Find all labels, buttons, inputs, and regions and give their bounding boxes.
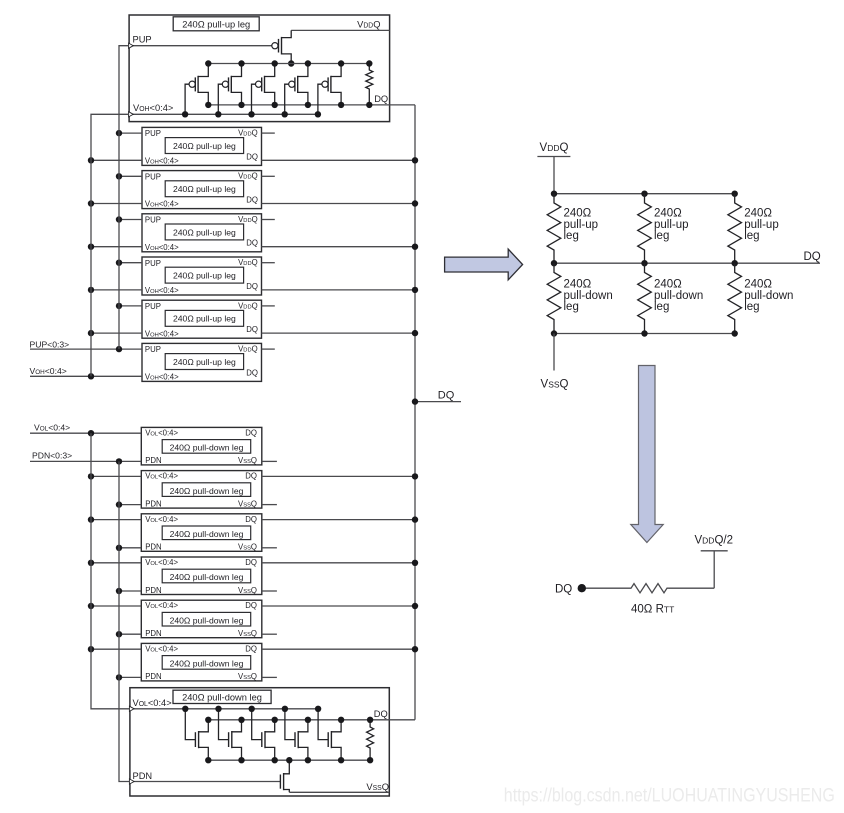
wire VOH input PU5 — [91, 332, 142, 334]
net label DQ (equivalent) — [804, 251, 821, 263]
node: VOL bus tap PD4 — [88, 560, 94, 566]
wire DQ to RTT — [584, 587, 628, 589]
wire VDDQ to top rail — [553, 157, 555, 194]
wire DQ PD4 to DQ rail — [262, 562, 415, 564]
svg-text:PDN: PDN — [145, 456, 161, 465]
pull-up leg block PU3 (box) — [142, 214, 262, 252]
node: bottom rail junction 3 — [732, 330, 738, 336]
net label PDN<0:3> — [32, 451, 72, 461]
resistor 240ohm pull-down leg 2 — [638, 263, 652, 333]
svg-text:DQ: DQ — [555, 584, 572, 596]
svg-text:240Ω pull-down leg: 240Ω pull-down leg — [170, 529, 244, 539]
svg-text:240Ω: 240Ω — [744, 279, 772, 291]
node: DQ junction PD6 — [412, 646, 418, 652]
node: M1 source on rail — [205, 60, 211, 66]
node: DQ junction PU1 — [412, 157, 418, 163]
wire VOL gate bus (bottom detail) — [129, 706, 318, 711]
svg-text:240Ω: 240Ω — [654, 208, 682, 220]
node: M5 drain on rail — [338, 102, 344, 108]
pull-down leg block PD5 (box) — [141, 600, 261, 638]
net label PUP<0:3> — [30, 339, 70, 349]
net label VSSQ (bottom detail) — [366, 782, 389, 792]
wire VSSQ stub PD4 — [262, 590, 277, 592]
pull-down leg block PD4 (box) — [141, 557, 261, 595]
transistor M5 (PMOS leg segment) — [318, 64, 341, 115]
svg-text:DQ: DQ — [245, 644, 257, 653]
node: N2 source on rail — [238, 757, 244, 763]
wire DQ rail (bottom detail) — [208, 719, 415, 721]
node: PUP bus tap PU5 — [116, 303, 122, 309]
node: M4 drain on rail — [305, 102, 311, 108]
node: VOH bus tap PU1 — [88, 157, 94, 163]
net label PDN (bottom detail) — [133, 771, 153, 781]
node: N3 drain on DQ rail — [272, 717, 278, 723]
wire PUP<0:3> input line — [30, 348, 142, 350]
svg-text:pull-down: pull-down — [744, 290, 793, 302]
wire VDDQ stub PU2 — [262, 175, 275, 177]
svg-text:VOH<0:4>: VOH<0:4> — [145, 157, 179, 166]
node: R_PD top — [367, 717, 373, 723]
svg-text:240Ω pull-up leg: 240Ω pull-up leg — [182, 20, 250, 30]
svg-text:VDDQ/2: VDDQ/2 — [695, 535, 734, 547]
wire DQ PU3 to DQ rail — [262, 246, 416, 248]
node: PDN bus tap PD2 — [116, 501, 122, 507]
wire PUP input PU4 — [119, 262, 142, 264]
svg-text:VOL<0:4>: VOL<0:4> — [145, 472, 178, 481]
transistor N1 (NMOS leg segment) — [185, 709, 208, 760]
node: M1 drain on rail — [205, 102, 211, 108]
node: N4 drain on DQ rail — [305, 717, 311, 723]
svg-text:240Ω pull-up leg: 240Ω pull-up leg — [173, 141, 236, 151]
node: bottom rail junction 1 — [551, 330, 557, 336]
svg-text:VOH<0:4>: VOH<0:4> — [30, 366, 67, 376]
node: N1 gate on VOL bus — [182, 706, 188, 712]
svg-text:PDN: PDN — [145, 586, 161, 595]
node: N4 gate on VOL bus — [282, 706, 288, 712]
value label pull-up leg 2 — [654, 208, 689, 243]
node: PDN bus start — [116, 458, 122, 464]
wire VDDQ stub PU6 — [262, 348, 275, 350]
value label pull-up leg 1 — [564, 208, 599, 243]
pull-up leg block PU5 (box) — [142, 300, 262, 338]
pull-down leg block PD1 (box) — [141, 427, 261, 465]
svg-text:PUP: PUP — [145, 129, 161, 138]
node: R_PD bottom — [367, 757, 373, 763]
svg-text:PDN<0:3>: PDN<0:3> — [32, 451, 72, 461]
wire bottom rail (equivalent) — [554, 333, 735, 335]
svg-text:DQ: DQ — [246, 325, 258, 334]
resistor 240ohm pull-up leg 2 — [638, 194, 652, 264]
svg-text:VDDQ: VDDQ — [540, 142, 569, 154]
value label pull-up leg 3 — [744, 208, 779, 243]
wire VSSQ rail (bottom detail) — [289, 791, 389, 793]
svg-text:240Ω pull-down leg: 240Ω pull-down leg — [170, 572, 244, 582]
node: N3 source on rail — [272, 757, 278, 763]
net label VDDQ (top detail) — [357, 20, 380, 30]
node: M1 gate on VOH bus — [182, 111, 188, 117]
node: R_PU bottom / DQ — [366, 102, 372, 108]
node: VOL bus tap PD5 — [88, 603, 94, 609]
svg-text:PDN: PDN — [145, 672, 161, 681]
svg-text:DQ: DQ — [246, 282, 258, 291]
transistor N2 (NMOS leg segment) — [219, 709, 242, 760]
value label pull-down leg 2 — [654, 279, 703, 314]
wire VSSQ stub PD3 — [262, 547, 277, 549]
net label PUP (top detail) — [133, 35, 152, 45]
transistor M4 (PMOS leg segment) — [285, 64, 308, 115]
node: R_PU top — [366, 60, 372, 66]
svg-text:PDN: PDN — [145, 543, 161, 552]
node: PUP bus end — [116, 346, 122, 352]
node: top rail junction 2 — [641, 191, 647, 197]
wire PUP input PU3 — [119, 219, 142, 221]
pull-up leg block PU4 (box) — [142, 257, 262, 295]
svg-text:DQ: DQ — [374, 94, 388, 104]
wire top rail (equivalent) — [554, 193, 735, 195]
wire DQ PD6 to DQ rail — [262, 648, 415, 650]
svg-text:PUP: PUP — [145, 259, 161, 268]
net label DQ (top detail) — [374, 94, 388, 104]
node: DQ junction PD2 — [412, 473, 418, 479]
svg-text:DQ: DQ — [374, 709, 388, 719]
svg-text:240Ω pull-up leg: 240Ω pull-up leg — [173, 357, 236, 367]
svg-text:pull-down: pull-down — [654, 290, 703, 302]
svg-text:PUP: PUP — [145, 302, 161, 311]
node: VOL bus tap PD3 — [88, 516, 94, 522]
node: N1 source on rail — [205, 757, 211, 763]
wire PDN input PD5 — [119, 633, 141, 635]
svg-text:240Ω pull-down leg: 240Ω pull-down leg — [170, 615, 244, 625]
wire VSSQ stub PD6 — [262, 676, 277, 678]
resistor 240ohm pull-down leg 3 — [728, 263, 742, 333]
node: M5 gate on VOH bus — [315, 111, 321, 117]
svg-text:DQ: DQ — [245, 428, 257, 437]
wire DQ PU2 to DQ rail — [262, 203, 416, 205]
svg-text:PDN: PDN — [145, 629, 161, 638]
pull-down leg block PD3 (box) — [141, 514, 261, 552]
net label DQ (main) — [438, 390, 455, 402]
wire PDN input PD4 — [119, 590, 141, 592]
pull-down leg block PD2 (box) — [141, 471, 261, 509]
svg-text:leg: leg — [744, 230, 759, 242]
svg-text:240Ω pull-down leg: 240Ω pull-down leg — [170, 659, 244, 669]
svg-text:DQ: DQ — [438, 390, 455, 402]
wire DQ PD3 to DQ rail — [262, 519, 415, 521]
svg-text:DQ: DQ — [246, 152, 258, 161]
node: DQ rail junction 2 — [641, 260, 647, 266]
svg-text:VOL<0:4>: VOL<0:4> — [145, 558, 178, 567]
node: DQ rail junction 1 — [551, 260, 557, 266]
node: N5 source on rail — [338, 757, 344, 763]
node: PDN bus tap PD3 — [116, 545, 122, 551]
node: N3 gate on VOL bus — [249, 706, 255, 712]
value label pull-down leg 1 — [564, 279, 613, 314]
label box 240ohm pull-up leg — [173, 17, 259, 31]
wire VDDQ stub PU4 — [262, 262, 275, 264]
node: N5 drain on DQ rail — [338, 717, 344, 723]
power symbol VDDQ — [537, 142, 570, 157]
node: DQ junction PD5 — [412, 603, 418, 609]
wire VOL input PD6 — [91, 648, 141, 650]
svg-text:240Ω pull-up leg: 240Ω pull-up leg — [173, 271, 236, 281]
svg-text:DQ: DQ — [245, 515, 257, 524]
resistor 240ohm pull-down leg 1 — [547, 263, 561, 333]
wire PDN bus (vertical) — [119, 461, 130, 781]
pull-up leg detail box (outline) — [129, 15, 390, 122]
net label DQ (RTT model) — [555, 584, 572, 596]
wire VOL input PD2 — [91, 475, 141, 477]
wire VOH input PU4 — [91, 289, 142, 291]
svg-text:VSSQ: VSSQ — [541, 378, 569, 390]
svg-text:PDN: PDN — [145, 499, 161, 508]
node: top rail junction 1 — [551, 191, 557, 197]
node: bottom rail junction 2 — [641, 330, 647, 336]
svg-text:VOL<0:4>: VOL<0:4> — [34, 422, 70, 432]
node: M5 source on rail — [338, 60, 344, 66]
transistor Q_PUP (PMOS) — [272, 30, 291, 63]
svg-text:pull-up: pull-up — [564, 219, 599, 231]
node: VOL bus tap PD2 — [88, 473, 94, 479]
wire VOL input PD5 — [91, 605, 141, 607]
svg-text:pull-down: pull-down — [564, 290, 613, 302]
wire PDN input PD3 — [119, 547, 141, 549]
wire VOH input PU3 — [91, 246, 142, 248]
node: M3 source on rail — [272, 60, 278, 66]
svg-text:240Ω: 240Ω — [564, 279, 592, 291]
wire VOH gate bus (top detail) — [129, 112, 318, 117]
node: Q_PUP drain on source rail — [288, 60, 294, 66]
power symbol VSSQ — [541, 378, 569, 390]
wire PDN input PD6 — [119, 676, 141, 678]
svg-text:PUP: PUP — [145, 216, 161, 225]
svg-text:https://blog.csdn.net/LUOHUATI: https://blog.csdn.net/LUOHUATINGYUSHENG — [504, 785, 835, 807]
svg-text:VOL<0:4>: VOL<0:4> — [133, 698, 172, 708]
node: VOH bus tap PU5 — [88, 330, 94, 336]
wire VDDQ stub PU3 — [262, 219, 275, 221]
pull-up leg block PU6 (box) — [142, 343, 262, 381]
node: VOL bus tap PD6 — [88, 646, 94, 652]
wire VOH bus (vertical) — [91, 114, 129, 376]
node: N4 source on rail — [305, 757, 311, 763]
node: PDN bus tap PD5 — [116, 631, 122, 637]
svg-text:PUP<0:3>: PUP<0:3> — [30, 339, 70, 349]
svg-text:leg: leg — [654, 230, 669, 242]
net label VOL<0:4> (bottom detail) — [133, 698, 172, 708]
wire PDN input (bottom detail) — [129, 779, 280, 784]
net label VOH<0:4> (input) — [30, 366, 67, 376]
svg-text:DQ: DQ — [245, 558, 257, 567]
svg-text:DQ: DQ — [245, 472, 257, 481]
resistor R_PU (240 ohm) — [366, 64, 373, 105]
wire PDN<0:3> input line — [30, 460, 141, 462]
wire source rail (top detail) — [208, 63, 369, 65]
arrow (equivalent circuit to RTT model) — [631, 366, 663, 543]
wire VSSQ stub PD5 — [262, 633, 277, 635]
node: DQ junction PU5 — [412, 330, 418, 336]
pull-up leg block PU1 (box) — [142, 127, 262, 165]
svg-text:240Ω pull-up leg: 240Ω pull-up leg — [173, 314, 236, 324]
transistor M2 (PMOS leg segment) — [218, 64, 241, 115]
node: DQ junction PU3 — [412, 244, 418, 250]
svg-text:240Ω: 240Ω — [564, 208, 592, 220]
value label 40ohm RTT — [631, 603, 674, 615]
watermark — [504, 785, 835, 807]
node: DQ stub junction — [412, 398, 418, 404]
svg-text:PUP: PUP — [145, 172, 161, 181]
svg-text:pull-up: pull-up — [654, 219, 689, 231]
node: M3 gate on VOH bus — [248, 111, 254, 117]
wire VOL input PD4 — [91, 562, 141, 564]
wire PUP bus (vertical) — [119, 46, 129, 349]
svg-text:VOH<0:4>: VOH<0:4> — [133, 103, 173, 113]
node: PDN bus tap PD6 — [116, 674, 122, 680]
node: PDN bus tap PD4 — [116, 588, 122, 594]
node: M4 source on rail — [305, 60, 311, 66]
svg-text:VOH<0:4>: VOH<0:4> — [145, 286, 179, 295]
node: PUP bus tap PU1 — [116, 130, 122, 136]
svg-text:240Ω pull-down leg: 240Ω pull-down leg — [170, 486, 244, 496]
node: VOL bus start — [88, 430, 94, 436]
wire DQ PU4 to DQ rail — [262, 289, 416, 291]
node: DQ junction PU2 — [412, 200, 418, 206]
resistor RTT (40 ohm) — [628, 584, 670, 593]
svg-text:VOL<0:4>: VOL<0:4> — [145, 601, 178, 610]
wire DQ PD5 to DQ rail — [262, 605, 415, 607]
transistor N3 (NMOS leg segment) — [252, 709, 275, 760]
svg-text:VOL<0:4>: VOL<0:4> — [145, 428, 178, 437]
transistor Q_PDN (NMOS) — [280, 760, 289, 792]
svg-text:pull-up: pull-up — [744, 219, 779, 231]
node: VOH bus tap PU4 — [88, 287, 94, 293]
svg-text:VOH<0:4>: VOH<0:4> — [145, 373, 179, 382]
resistor 240ohm pull-up leg 1 — [547, 194, 561, 264]
label box 240ohm pull-down leg — [173, 690, 271, 703]
net label VOL<0:4> (input) — [34, 422, 70, 432]
svg-text:240Ω pull-down leg: 240Ω pull-down leg — [182, 693, 262, 703]
svg-text:VOH<0:4>: VOH<0:4> — [145, 329, 179, 338]
node: PUP bus tap PU4 — [116, 260, 122, 266]
wire VOL bus (vertical) — [91, 433, 130, 709]
node: VOH bus end — [88, 373, 94, 379]
wire source rail (bottom detail) — [208, 759, 370, 761]
svg-text:240Ω: 240Ω — [654, 279, 682, 291]
wire DQ PU5 to DQ rail — [262, 332, 416, 334]
svg-text:240Ω pull-up leg: 240Ω pull-up leg — [173, 184, 236, 194]
svg-text:leg: leg — [744, 301, 759, 313]
node: N1 drain on DQ rail — [205, 717, 211, 723]
node: DQ terminal — [578, 584, 586, 592]
node: M2 source on rail — [238, 60, 244, 66]
wire VOL input PD3 — [91, 519, 141, 521]
wire DQ vertical rail — [414, 105, 416, 720]
transistor M1 (PMOS leg segment) — [185, 64, 208, 115]
wire PUP input PU2 — [119, 175, 142, 177]
wire DQ PD2 to DQ rail — [262, 475, 415, 477]
wire DQ PU1 to DQ rail — [262, 159, 416, 161]
pull-up leg block PU2 (box) — [142, 171, 262, 209]
wire VOH input PU1 — [91, 159, 142, 161]
svg-text:leg: leg — [564, 301, 579, 313]
wire DQ rail (equivalent) — [554, 262, 820, 264]
svg-text:VOL<0:4>: VOL<0:4> — [145, 644, 178, 653]
node: N5 gate on VOL bus — [315, 706, 321, 712]
wire VSSQ stub PD1 — [262, 460, 277, 462]
wire VDDQ stub PU1 — [262, 132, 275, 134]
svg-text:DQ: DQ — [246, 196, 258, 205]
resistor 240ohm pull-up leg 3 — [728, 194, 742, 264]
wire PUP input (top detail) — [129, 43, 272, 48]
node: M2 gate on VOH bus — [215, 111, 221, 117]
node: M4 gate on VOH bus — [282, 111, 288, 117]
wire VOH<0:4> input line — [30, 375, 142, 377]
node: DQ junction PU4 — [412, 287, 418, 293]
wire VOH input PU2 — [91, 203, 142, 205]
node: N2 drain on DQ rail — [238, 717, 244, 723]
svg-text:DQ: DQ — [246, 239, 258, 248]
node: Q_PDN drain on source rail — [286, 757, 292, 763]
arrow (left schematic to equivalent circuit) — [445, 249, 523, 280]
transistor M3 (PMOS leg segment) — [252, 64, 275, 115]
resistor R_PD (240 ohm) — [367, 720, 374, 760]
wire VDDQ stub PU5 — [262, 305, 275, 307]
node: M2 drain on rail — [238, 102, 244, 108]
net label DQ (bottom detail) — [374, 709, 388, 719]
node: M3 drain on rail — [272, 102, 278, 108]
node: DQ junction PD4 — [412, 560, 418, 566]
svg-text:240Ω: 240Ω — [744, 208, 772, 220]
wire bottom rail to VSSQ — [553, 334, 555, 371]
svg-text:240Ω pull-up leg: 240Ω pull-up leg — [173, 227, 236, 237]
transistor N5 (NMOS leg segment) — [318, 709, 341, 760]
wire PUP input PU1 — [119, 132, 142, 134]
node: VOH bus tap PU3 — [88, 244, 94, 250]
node: PUP bus tap PU2 — [116, 173, 122, 179]
wire drain/DQ rail (top detail) — [208, 104, 415, 106]
svg-text:leg: leg — [564, 230, 579, 242]
node: DQ rail junction 3 — [732, 260, 738, 266]
node: PUP bus tap PU3 — [116, 216, 122, 222]
svg-text:40Ω RTT: 40Ω RTT — [631, 603, 674, 615]
pull-down leg block PD6 (box) — [141, 643, 261, 681]
svg-text:PUP: PUP — [133, 35, 152, 45]
svg-text:DQ: DQ — [245, 601, 257, 610]
svg-text:DQ: DQ — [804, 251, 821, 263]
wire VOL<0:4> input line — [30, 432, 141, 434]
wire RTT right lead — [670, 587, 715, 589]
wire VDDQ/2 drop — [713, 551, 715, 588]
transistor N4 (NMOS leg segment) — [285, 709, 308, 760]
svg-text:DQ: DQ — [246, 368, 258, 377]
wire VSSQ stub PD2 — [262, 504, 277, 506]
power symbol VDDQ/2 — [695, 535, 734, 551]
svg-text:240Ω pull-down leg: 240Ω pull-down leg — [170, 443, 244, 453]
svg-text:PDN: PDN — [133, 771, 153, 781]
wire VDDQ rail (top detail) — [291, 29, 389, 31]
pull-down leg detail box (outline) — [130, 688, 389, 796]
svg-text:VOH<0:4>: VOH<0:4> — [145, 200, 179, 209]
svg-text:leg: leg — [654, 301, 669, 313]
node: N2 gate on VOL bus — [215, 706, 221, 712]
node: DQ junction PD3 — [412, 516, 418, 522]
wire PDN input PD2 — [119, 504, 141, 506]
node: top rail junction 3 — [732, 191, 738, 197]
node: VOH bus tap PU2 — [88, 200, 94, 206]
wire PUP input PU5 — [119, 305, 142, 307]
svg-text:PUP: PUP — [145, 345, 161, 354]
svg-text:VOL<0:4>: VOL<0:4> — [145, 515, 178, 524]
wire DQ stub to label — [415, 401, 461, 403]
net label VOH<0:4> (top detail) — [133, 103, 173, 113]
